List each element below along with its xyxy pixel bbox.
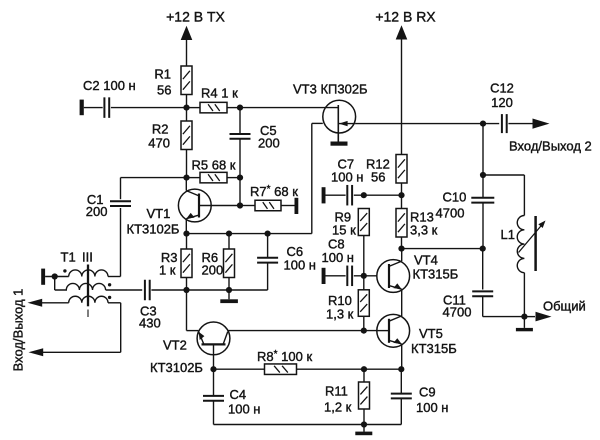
wire node down to VT2 [186, 290, 188, 331]
L1 tuning arrow [519, 224, 544, 253]
wire C3 to node [151, 289, 186, 291]
wire VT5 base [377, 330, 389, 332]
resistor R11 [359, 382, 370, 409]
svg-text:200: 200 [258, 136, 280, 151]
wire VT4 emitter to VT5 collector [401, 289, 403, 316]
svg-text:C9: C9 [419, 385, 436, 400]
wire C8 to base node [354, 275, 377, 277]
node C5-R5 [237, 175, 243, 181]
node R6 top [226, 231, 232, 237]
wire C4 bottom [213, 401, 215, 425]
wire winding2 right to C3 [106, 289, 143, 291]
wire C10 to node [482, 202, 484, 248]
svg-text:56: 56 [157, 83, 171, 98]
label winding I mark [87, 310, 89, 318]
wire C11 bottom [482, 296, 484, 317]
ground terminal T1 [41, 269, 45, 285]
svg-text:КТ315Б: КТ315Б [413, 267, 459, 282]
svg-text:100 н: 100 н [322, 250, 354, 265]
wire L1 bottom [523, 273, 525, 317]
wire R2 to collector node [186, 150, 188, 178]
wire C12 node down [482, 124, 484, 199]
resistor R4 [200, 102, 227, 113]
svg-text:C10: C10 [443, 190, 467, 205]
node VT1 emitter [183, 231, 189, 237]
ground bar under R6 [220, 299, 238, 303]
svg-text:VT3 КП302Б: VT3 КП302Б [293, 82, 368, 97]
resistor R2 [181, 121, 192, 150]
wire L1 top branch [483, 174, 524, 176]
wire R9 bottom [363, 236, 365, 276]
ground bar left of C7 [322, 187, 326, 203]
svg-text:200: 200 [86, 204, 108, 219]
svg-text:470: 470 [148, 136, 170, 151]
svg-text:4700: 4700 [443, 305, 472, 320]
wire VT2 base down [213, 344, 215, 369]
wire R13 bottom [401, 237, 403, 249]
wire R7 to ground [281, 205, 295, 207]
svg-text:15 к: 15 к [332, 223, 356, 238]
wire base node vertical [239, 178, 241, 206]
arrow Общий [536, 312, 552, 322]
wire C2 to node [111, 107, 187, 109]
wire emitter line [187, 233, 312, 235]
svg-text:Вход/Выход 2: Вход/Выход 2 [509, 139, 592, 154]
svg-text:+12 В TX: +12 В TX [166, 9, 225, 25]
svg-text:1,3 к: 1,3 к [326, 307, 354, 322]
L1 core bar [534, 216, 537, 271]
svg-text:VT5: VT5 [419, 326, 443, 341]
node L1 bottom-Общий [521, 314, 527, 320]
svg-text:1,2 к: 1,2 к [324, 400, 352, 415]
polarity dot winding3 [108, 296, 111, 299]
wire to R8 [214, 368, 265, 370]
power arrow +12V TX [181, 26, 193, 40]
wire C9 bottom [400, 398, 402, 424]
wire R4 to node B [227, 107, 240, 109]
node R12-C7-R13 [398, 192, 404, 198]
wire R6 bottom [228, 278, 230, 300]
capacitor C12 [501, 114, 503, 133]
inductor L1 [517, 216, 524, 273]
svg-text:R7* 68 к: R7* 68 к [250, 184, 298, 199]
transistor VT2 [197, 322, 230, 355]
polarity dot winding1 [63, 269, 66, 272]
power arrow +12V RX [396, 25, 408, 39]
resistor R7 [255, 200, 281, 211]
T1 winding 2 [55, 283, 106, 290]
wire R6 top [228, 234, 230, 249]
wire ground to C7 [326, 194, 346, 196]
wire R3 top [186, 234, 188, 249]
svg-text:КТ3102Б: КТ3102Б [127, 222, 180, 237]
svg-text:КТ3102Б: КТ3102Б [150, 360, 203, 375]
transistor VT1 [178, 189, 211, 222]
wire gate line to VT3 [240, 107, 338, 109]
node R10 bottom [361, 328, 367, 334]
node C10-C11 [480, 246, 486, 252]
T1 winding 3 [69, 296, 108, 303]
wire C12 to arrow [508, 123, 533, 125]
wire C4 top [213, 369, 215, 396]
wire R10 bottom [363, 316, 365, 330]
wire C6 top lead [267, 234, 269, 259]
capacitor C1 [110, 200, 131, 202]
arrow Вход/Выход 1 lower [29, 348, 44, 356]
node base-R7 [237, 202, 243, 208]
wire collector node to C10/C11 [402, 248, 483, 250]
wire C1 riser top [120, 178, 122, 200]
wire tap down [54, 277, 56, 291]
wire winding3 right riser [108, 302, 121, 304]
node R13-collector [398, 246, 404, 252]
ground bar under VT3 [331, 142, 348, 146]
node VT2 base-C4-R8 [210, 366, 216, 372]
wire winding1 right to C1 riser [108, 276, 121, 278]
capacitor C5 [230, 133, 251, 135]
svg-text:VT1: VT1 [147, 206, 171, 221]
svg-text:R5 68 к: R5 68 к [192, 158, 236, 173]
transistor VT3 (FET) [323, 100, 356, 133]
capacitor C9 [391, 393, 412, 395]
wire R12 bottom [401, 183, 403, 209]
svg-text:C2 100 н: C2 100 н [83, 78, 136, 93]
wire node to R4 [187, 107, 201, 109]
wire bottom rail [214, 424, 402, 426]
svg-text:VT2: VT2 [163, 338, 187, 353]
resistor R10 [358, 290, 369, 317]
wire VT3 drain riser [311, 123, 313, 233]
wire R5 to base node [227, 177, 240, 179]
svg-text:+12 В RX: +12 В RX [375, 9, 436, 25]
transistor VT5 [377, 314, 410, 347]
wire node to R5 [187, 177, 201, 179]
arrow Вход/Выход 2 [533, 119, 550, 129]
svg-text:VT4: VT4 [414, 253, 438, 268]
capacitor C6 [257, 257, 278, 259]
wire ground to C2 [84, 107, 103, 109]
capacitor C2 [103, 97, 105, 118]
svg-text:56: 56 [371, 170, 385, 185]
svg-text:100 н: 100 н [416, 400, 448, 415]
resistor R12 [396, 155, 407, 184]
capacitor C4 [203, 395, 224, 397]
capacitor C3 [144, 280, 146, 301]
node R11 top [361, 366, 367, 372]
wire R10 top [363, 276, 365, 290]
polarity dot winding2 [108, 283, 111, 286]
ground bar after R7 [295, 198, 299, 214]
node L1 branch [480, 172, 486, 178]
wire R1 bottom to node [186, 95, 188, 122]
svg-text:R2: R2 [152, 122, 169, 137]
svg-text:430: 430 [139, 316, 161, 331]
resistor R1 [181, 66, 192, 95]
wire C5 to R5 node [239, 138, 241, 177]
node T1 primary tap [52, 273, 58, 279]
resistor R9 [358, 209, 369, 236]
node R6 bottom [226, 287, 232, 293]
wire C6 bottom lead [267, 262, 269, 290]
wire R11 top lead [363, 369, 365, 382]
wire ground to C8 [326, 275, 346, 277]
svg-text:R8* 100 к: R8* 100 к [257, 349, 312, 364]
transistor VT4 [377, 260, 410, 293]
svg-text:C4: C4 [230, 387, 247, 402]
wire C9 top [400, 369, 402, 394]
wire VT5 emitter down [401, 344, 403, 369]
capacitor C7 [346, 185, 348, 206]
svg-text:L1: L1 [501, 227, 515, 242]
resistor R13 [396, 209, 407, 238]
wire VT3 source to C12 line [356, 123, 500, 125]
transformer T1 core [87, 265, 89, 307]
svg-text:C12: C12 [490, 81, 514, 96]
svg-text:3,3 к: 3,3 к [410, 223, 438, 238]
node VT5 emitter-C9 [398, 366, 404, 372]
ground terminal left of C2 [80, 100, 84, 116]
wire VT1 emitter down [185, 219, 187, 234]
wire C5 vertical top [239, 108, 241, 135]
svg-text:120: 120 [491, 95, 513, 110]
wire R11 bottom lead [363, 409, 365, 425]
svg-text:T1: T1 [61, 250, 76, 265]
resistor R8 [265, 364, 297, 375]
resistor R5 [200, 172, 227, 183]
resistor R3 [181, 249, 192, 278]
wire R7 lead [240, 205, 255, 207]
svg-text:100 н: 100 н [228, 402, 260, 417]
node C12 branch [480, 121, 486, 127]
arrow Вход/Выход 1 upper [28, 299, 43, 307]
node C8-R9-R10-base [361, 273, 367, 279]
wire node to C11 [482, 249, 484, 290]
svg-text:100 н: 100 н [284, 258, 316, 273]
svg-text:100 н: 100 н [331, 170, 363, 185]
wire Общий arrow lead [524, 316, 535, 318]
svg-text:4700: 4700 [436, 206, 465, 221]
node C6 top [265, 231, 271, 237]
svg-text:Общий: Общий [543, 299, 586, 314]
resistor R6 [224, 249, 235, 278]
wire R8 to VT5 emitter node [297, 368, 402, 370]
node TX-R1-R2-C2-R4 [183, 105, 189, 111]
wire VT2 collector line to VT5 base [228, 330, 377, 332]
ground bar under Общий node [523, 317, 525, 328]
node R4-C5-gate [237, 105, 243, 111]
ground bar bottom [363, 425, 365, 432]
capacitor C8 [346, 266, 348, 287]
svg-text:R4 1 к: R4 1 к [201, 86, 238, 101]
wire VT1 collector up [185, 178, 187, 191]
ground bar left of C8 [322, 268, 326, 284]
svg-text:R1: R1 [154, 67, 171, 82]
wire VT4 collector up [401, 249, 403, 262]
svg-text:Вход/Выход 1: Вход/Выход 1 [11, 289, 26, 372]
svg-text:КТ315Б: КТ315Б [411, 341, 457, 356]
svg-text:III: III [82, 250, 93, 265]
svg-text:200: 200 [202, 263, 224, 278]
capacitor C11 [472, 290, 493, 292]
wire R3 bottom [186, 278, 188, 291]
node R9 top [361, 192, 367, 198]
wire C7 to node [354, 194, 402, 196]
node R3-C3 [183, 287, 189, 293]
wire VT1 base right [199, 205, 240, 207]
svg-text:1 к: 1 к [159, 263, 176, 278]
T1 winding 1 [69, 270, 108, 277]
wire terminal to winding [45, 276, 69, 278]
capacitor C10 [471, 197, 494, 199]
node R2-C1-R5-collector [183, 175, 189, 181]
svg-text:R11: R11 [325, 384, 348, 399]
